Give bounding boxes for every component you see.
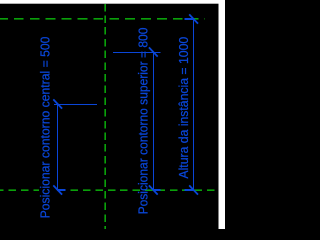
canvas background [0, 0, 225, 229]
dimension D3 bottom tick [189, 185, 198, 194]
dimension D3 line [193, 19, 195, 191]
dimension D3 top witness [185, 18, 195, 20]
dimension D3 top tick [189, 14, 198, 23]
dimension D3 bottom witness [185, 189, 195, 191]
dimension D1 top witness [54, 104, 97, 106]
dimension D2 top tick [149, 47, 158, 56]
reference plane vertical [105, 4, 106, 229]
dimension D1 bottom witness [57, 189, 65, 191]
svg-text:Posicionar contorno superior =: Posicionar contorno superior = 800 [136, 28, 151, 215]
dimension D2 top witness [113, 52, 160, 54]
dimension D1 line [57, 104, 59, 191]
white border strip right [219, 0, 226, 229]
text1 opaque background mask [39, 30, 54, 220]
dimension D2 bottom tick [149, 185, 158, 194]
dimension D1 top tick [53, 99, 62, 108]
dimension D2 bottom witness [153, 189, 160, 191]
dimension D2 line [153, 52, 155, 190]
reference plane horizontal bottom [0, 190, 217, 191]
reference plane horizontal top [0, 19, 205, 20]
svg-text:Posicionar contorno central =: Posicionar contorno central = 500 [38, 37, 52, 219]
dimension D1 bottom tick [53, 185, 62, 194]
white border strip top [0, 0, 225, 4]
svg-text:Altura da instância = 1000: Altura da instância = 1000 [177, 37, 191, 179]
